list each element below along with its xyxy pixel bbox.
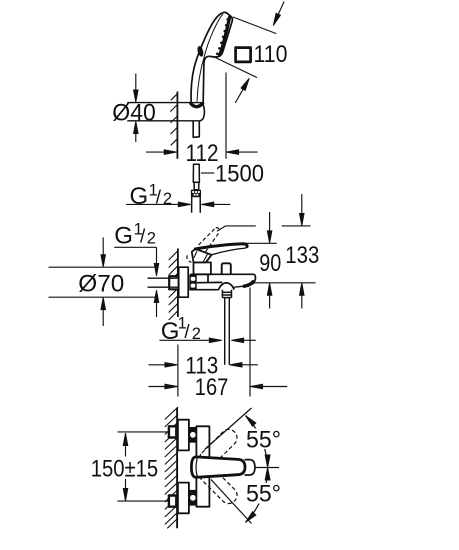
svg-text:/: /	[140, 226, 146, 247]
label G1/2 (hose)	[130, 181, 173, 210]
lever axis line	[255, 467, 279, 469]
dimension square110: extension line upper	[233, 17, 276, 34]
dimension 90	[269, 212, 271, 309]
inlet pipe	[148, 278, 179, 287]
svg-text:55°: 55°	[246, 427, 281, 454]
svg-text:90: 90	[259, 250, 281, 277]
150 reference line bottom	[118, 500, 169, 502]
swivel arc lower	[246, 468, 268, 523]
dimension square110: lower arrow	[235, 78, 249, 103]
outlet pipe (extension to 113)	[225, 298, 230, 365]
svg-text:112: 112	[186, 140, 219, 167]
spout dark crescent	[244, 282, 253, 286]
spout tip extension line	[249, 288, 251, 397]
G1/2 upper leader: underline, down arrow, up arrow	[114, 247, 156, 317]
arc arrowheads	[246, 416, 256, 427]
wall extension line below	[177, 345, 179, 397]
shower outlet bell	[219, 283, 235, 290]
shower hose upper piece	[193, 164, 199, 189]
body column	[196, 426, 209, 506]
wall (bottom view)	[165, 407, 178, 528]
dimension square110: extension line lower	[213, 56, 257, 77]
lever (top view)	[191, 457, 245, 477]
svg-text:2: 2	[163, 190, 172, 208]
swivel ray lower	[211, 480, 252, 524]
svg-text:/: /	[184, 322, 190, 343]
svg-text:G: G	[130, 183, 149, 210]
label 55 top	[244, 429, 284, 450]
label 55 bottom	[244, 483, 284, 504]
outlet nut	[222, 290, 232, 298]
swivel ray upper	[205, 408, 252, 450]
reference line spout level	[251, 282, 316, 284]
dimension 150+-15	[125, 433, 127, 501]
dimension diam70: reference lines	[49, 238, 156, 327]
bottom escutcheon	[178, 483, 189, 514]
label G1/2 (wall union, upper)	[114, 220, 156, 249]
wall (shower holder)	[170, 92, 178, 159]
lever neck line	[196, 458, 197, 476]
spray face nozzle bumps	[216, 18, 229, 55]
spray face dark band	[219, 17, 229, 55]
dashed lever up position	[196, 426, 240, 470]
shower holder	[127, 103, 204, 121]
lever knuckle	[192, 249, 212, 263]
hose tube	[192, 197, 201, 213]
dimension square110: upper arrow	[273, 2, 284, 26]
top union nut (black with hole)	[189, 427, 197, 443]
dimension 133	[301, 194, 303, 309]
svg-text:1500: 1500	[215, 161, 264, 188]
svg-text:/: /	[156, 187, 162, 208]
union nut (black with holes)	[189, 275, 196, 290]
spout tip	[252, 274, 255, 284]
svg-text:110: 110	[254, 41, 288, 68]
dimension 113	[149, 364, 258, 366]
G1/2 hose underline and arrows	[126, 203, 230, 205]
mixer body (middle view)	[189, 274, 254, 289]
svg-text:55°: 55°	[246, 481, 281, 508]
cartridge collar	[194, 262, 211, 274]
svg-text:150±15: 150±15	[91, 456, 159, 483]
leader 1500	[201, 172, 214, 174]
lever (solid) top	[195, 244, 247, 249]
dimension 167	[149, 386, 288, 388]
spray mode button	[196, 45, 204, 57]
label G1/2 (lower)	[161, 315, 201, 346]
spout underside	[232, 286, 243, 287]
square symbol	[236, 48, 251, 62]
inlet union nut at wall	[169, 276, 179, 289]
escutcheon (diam70)	[179, 267, 189, 297]
dimension diam40	[135, 74, 137, 143]
svg-text:G: G	[114, 223, 133, 250]
hose nut (hatched)	[191, 190, 201, 198]
hand shower body	[191, 12, 232, 102]
svg-text:167: 167	[195, 374, 229, 401]
reference line lever top (90)	[243, 242, 277, 244]
swivel arc upper with arrows	[246, 416, 268, 468]
top escutcheon	[178, 420, 189, 451]
dimension 112	[146, 73, 258, 159]
svg-text:133: 133	[285, 242, 319, 269]
bottom union nut (black with hole)	[189, 490, 197, 506]
lever end cap	[245, 460, 255, 475]
svg-text:G: G	[161, 318, 180, 345]
wall (middle view)	[169, 249, 178, 321]
G1/2 lower underline and arrows	[159, 339, 255, 341]
lever raised (dashed)	[187, 228, 220, 263]
holder hose connector	[193, 121, 199, 138]
top inlet nut	[169, 426, 176, 437]
leader from raised lever (133 reference)	[217, 226, 311, 231]
svg-text:2: 2	[147, 229, 156, 247]
bottom inlet nut	[169, 496, 176, 507]
lever underside	[212, 247, 247, 255]
150 reference line top	[118, 431, 169, 433]
dashed lever down position	[196, 463, 240, 507]
diverter knob	[222, 263, 231, 274]
hand shower inner line	[197, 14, 223, 101]
svg-text:Ø40: Ø40	[112, 100, 156, 127]
svg-text:Ø70: Ø70	[78, 271, 124, 298]
handle grip end in holder (dark arc)	[191, 103, 203, 106]
